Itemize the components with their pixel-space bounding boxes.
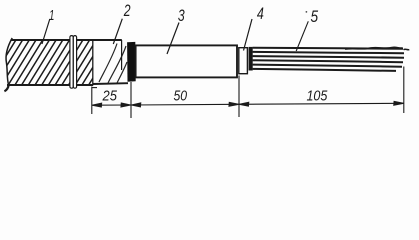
extension line B	[130, 82, 132, 118]
svg-text:1: 1	[49, 7, 54, 24]
svg-text:25: 25	[102, 87, 118, 104]
section 2 sparse hatch strokes	[99, 44, 127, 84]
leader 2	[113, 19, 122, 44]
dimension line 105	[239, 101, 403, 106]
wire w1	[253, 47, 410, 49]
band 2 (black ferrule)	[127, 42, 136, 82]
svg-text:2: 2	[123, 2, 131, 20]
dimension line 50	[131, 102, 238, 106]
rod 1 wavy break edge left	[4, 38, 12, 91]
collar (wound band on rod)	[70, 36, 77, 89]
section 2 end line	[121, 40, 123, 70]
extension line A	[92, 87, 97, 115]
dimension text 50	[174, 88, 188, 105]
rod 1 end line	[92, 40, 94, 86]
speck near label 5	[306, 11, 308, 13]
rod 1 outline top edge	[11, 39, 122, 41]
leader 5	[296, 21, 308, 51]
svg-text:5: 5	[311, 8, 319, 26]
leader 1	[42, 19, 50, 44]
svg-text:50: 50	[174, 88, 188, 105]
wire w3	[253, 56, 404, 58]
dimension line 25	[92, 103, 130, 107]
wire clamp black bar	[249, 47, 253, 71]
dimension text 105	[306, 88, 327, 105]
svg-text:4: 4	[257, 4, 264, 23]
body 3 rectangle	[136, 45, 237, 77]
label 1	[49, 7, 54, 24]
label 3	[178, 7, 185, 25]
leader 3	[167, 23, 179, 55]
wire w2	[253, 52, 404, 53]
extension line C	[238, 76, 240, 118]
label 4	[257, 4, 264, 23]
wire w6	[253, 69, 396, 71]
dimension text 25	[102, 87, 118, 104]
extension line D	[403, 67, 405, 114]
rod 1 outline bottom edge	[7, 83, 128, 85]
label 5	[311, 8, 319, 26]
leader 4	[244, 19, 253, 51]
label 2	[123, 2, 131, 20]
rod 1 hatched body	[0, 39, 117, 86]
wire w4	[253, 60, 403, 62]
svg-text:105: 105	[306, 88, 327, 105]
connector 4 small rectangle	[239, 48, 248, 74]
svg-text:3: 3	[178, 7, 185, 25]
wire w5	[253, 65, 402, 67]
